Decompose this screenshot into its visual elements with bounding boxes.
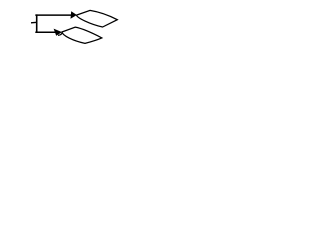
wire: top branch [35,14,71,16]
wire: bottom branch [35,31,56,33]
arrowhead bottom [54,29,62,36]
arrowhead top [71,11,77,18]
wire: vertical trunk [36,14,38,32]
node: top diamond [77,10,118,27]
node: bottom diamond [62,27,102,43]
wire: sketch overshoot at bottom diamond left vertex [58,32,62,35]
wire: stub into trunk [31,21,37,24]
